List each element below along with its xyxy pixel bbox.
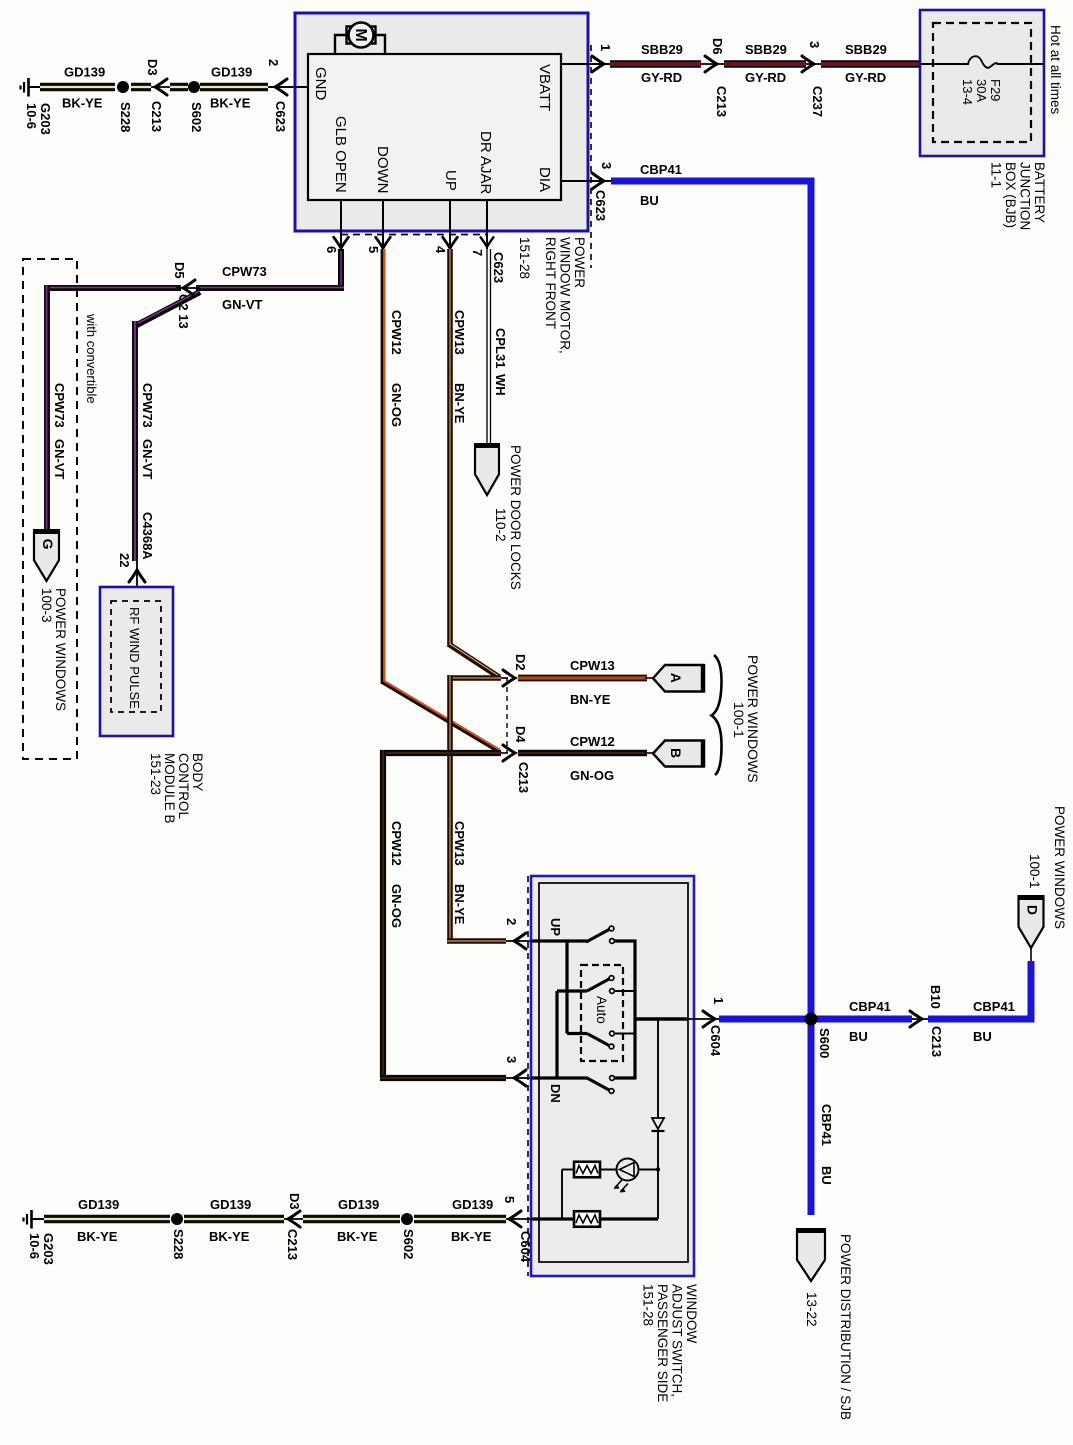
connector C623 arrow (GND) [275, 79, 287, 95]
svg-text:CBP41: CBP41 [849, 999, 891, 1014]
wire joint at C213 (top) [151, 86, 172, 88]
label B10 [928, 985, 943, 1009]
label BN-YE (to A) [570, 692, 611, 707]
wire GD139 segment 3 (top) [170, 83, 188, 91]
wire joint pin 2 [506, 940, 531, 942]
wire CPW12 diagonal to D4 [383, 681, 500, 751]
auto upper blade [587, 979, 610, 992]
svg-text:WINDOW MOTOR,: WINDOW MOTOR, [558, 237, 573, 354]
svg-text:G: G [40, 539, 56, 550]
label GD139 #2 (top) [211, 65, 252, 80]
wire CPW13 corner to pin 2 [447, 938, 506, 944]
label pin 5 (bottom) [502, 1196, 517, 1203]
pin label GND [312, 67, 329, 101]
label GD139 #3 (bottom) [338, 1197, 379, 1212]
label C623 (top) [273, 101, 288, 132]
svg-text:D5: D5 [172, 262, 187, 279]
wire joint at B10 [912, 1018, 930, 1020]
wire CPW13 down to switch [447, 675, 453, 941]
pin 2 arrow (switch) [514, 933, 526, 949]
wire lamp to diode node [639, 1169, 659, 1171]
svg-text:D: D [1025, 905, 1041, 915]
svg-text:SBB29: SBB29 [845, 42, 887, 57]
wire GD139 segment 2 (bottom) [184, 1215, 284, 1223]
body control module box [100, 587, 173, 736]
connector power distribution pentagon [796, 1231, 826, 1282]
battery junction box [920, 10, 1044, 156]
label C213 (D4) [516, 762, 531, 793]
wire lamp branch down [561, 1170, 563, 1220]
svg-text:C213: C213 [285, 1229, 300, 1260]
auto dashed box [581, 965, 623, 1061]
connector C4368A arrow [129, 570, 145, 582]
label pin 3 (switch) [504, 1056, 519, 1063]
svg-text:6: 6 [324, 246, 339, 253]
wire UP branch to lower auto blade [567, 1032, 587, 1035]
svg-text:BK-YE: BK-YE [209, 1229, 250, 1244]
diode branch wire [657, 1019, 659, 1118]
brace power windows 100-1 [712, 655, 722, 775]
svg-text:BK-YE: BK-YE [337, 1229, 378, 1244]
svg-text:BODY: BODY [190, 753, 205, 791]
wire joint pin 1 [688, 1018, 719, 1020]
wire GD139 segment 4 (top) [200, 83, 268, 91]
svg-text:BN-YE: BN-YE [570, 692, 611, 707]
wire UP branch down [565, 941, 568, 1034]
svg-text:A: A [668, 673, 684, 683]
label BU (top) [640, 193, 659, 208]
fuse F29 element [968, 56, 998, 68]
wire joint into motor box [268, 86, 308, 88]
label BU (right) [973, 1029, 992, 1044]
label G203 10-6 (top) [24, 103, 53, 135]
svg-text:GD139: GD139 [64, 65, 105, 80]
wire GD139 segment 1 (top) [40, 83, 115, 91]
svg-text:GD139: GD139 [210, 1197, 251, 1212]
wire GD139 segment 4 (bottom) [414, 1215, 506, 1223]
pin 7 arrow [481, 237, 494, 247]
label C213 (top) [149, 101, 164, 132]
svg-text:DR AJAR: DR AJAR [477, 131, 494, 195]
svg-text:Hot at all times: Hot at all times [1048, 25, 1063, 115]
svg-text:POWER: POWER [572, 237, 587, 288]
diode [652, 1118, 665, 1131]
svg-text:C213: C213 [714, 86, 729, 117]
pin 3 arrow (switch) [514, 1070, 526, 1086]
svg-text:151-28: 151-28 [517, 237, 532, 279]
svg-text:110-2: 110-2 [493, 508, 508, 542]
connector C237 arrow [802, 56, 814, 72]
label WH [493, 374, 508, 396]
svg-text:with convertible: with convertible [84, 313, 99, 404]
svg-text:S600: S600 [817, 1028, 832, 1058]
svg-text:C237: C237 [810, 86, 825, 117]
wire joint pentagon A [645, 677, 654, 679]
wire CPW73 to convertible [44, 285, 181, 292]
window adjust switch inner box [539, 883, 688, 1262]
svg-text:C623: C623 [593, 190, 608, 221]
BJB dashed inner box [933, 23, 1031, 142]
wire CBP41 to pentagon D [928, 961, 1031, 1019]
auto lower blade [587, 1034, 610, 1047]
pin 3 arrow (DIA) [592, 173, 604, 189]
svg-text:30A: 30A [974, 79, 989, 102]
splice S600 [805, 1013, 818, 1026]
svg-text:RIGHT FRONT: RIGHT FRONT [543, 237, 558, 329]
wire GND into inner box [295, 86, 309, 88]
label CPW12 (upper) [389, 310, 404, 355]
label pin 1 (VBATT) [598, 44, 613, 51]
label CPW13 (upper) [452, 310, 467, 355]
wire CPW13 diagonal to D2 [450, 644, 500, 677]
label UP [548, 918, 563, 936]
connector power door locks pentagon [474, 446, 500, 496]
svg-text:CONTROL: CONTROL [176, 753, 191, 819]
svg-text:CPL31: CPL31 [493, 328, 508, 368]
wire VBATT stub [561, 63, 610, 65]
svg-text:F29: F29 [988, 79, 1003, 101]
svg-text:BK-YE: BK-YE [451, 1229, 492, 1244]
wire DIA stub [561, 180, 611, 182]
svg-text:BATTERY: BATTERY [1032, 162, 1047, 223]
splice S602 (top) [188, 81, 200, 93]
svg-text:S602: S602 [189, 102, 204, 132]
wire auto lower to bus [615, 1033, 636, 1035]
svg-text:POWER WINDOWS: POWER WINDOWS [53, 588, 68, 711]
label C213 (D6) [714, 86, 729, 117]
wire joint at C604 (bottom) [506, 1218, 531, 1220]
wire stub pin 4 [449, 200, 451, 249]
svg-text:100-3: 100-3 [39, 588, 54, 623]
svg-text:CPW12: CPW12 [389, 821, 404, 866]
label BK-YE #1 (top) [62, 96, 103, 111]
svg-text:BK-YE: BK-YE [77, 1229, 118, 1244]
label S602 (top) [189, 102, 204, 132]
wire bus to pin 1 [635, 1017, 688, 1020]
svg-text:S602: S602 [401, 1229, 416, 1259]
svg-text:GN-VT: GN-VT [222, 297, 263, 312]
wire pin 5 into box [531, 1217, 574, 1220]
wire from fuse [997, 63, 1044, 65]
svg-text:SBB29: SBB29 [745, 42, 787, 57]
svg-text:GY-RD: GY-RD [641, 70, 682, 85]
svg-text:151-23: 151-23 [148, 753, 163, 795]
pin label GLB OPEN [332, 116, 349, 193]
svg-text:G203: G203 [41, 1233, 56, 1265]
svg-text:BK-YE: BK-YE [210, 96, 251, 111]
resistor upper [574, 1162, 600, 1178]
svg-text:BOX (BJB): BOX (BJB) [1003, 162, 1018, 228]
connector C213 B10 arrow [910, 1011, 922, 1027]
wire CPW73 horizontal [196, 285, 344, 292]
splice S228 (top) [117, 81, 129, 93]
label C623 (DIA) [593, 190, 608, 221]
label CPW73 (horizontal) [222, 264, 267, 279]
auto upper contact circles [609, 976, 614, 994]
wire DN branch up [555, 991, 558, 1078]
svg-text:B10: B10 [928, 985, 943, 1009]
label POWER DISTRIBUTION / SJB [838, 1234, 853, 1420]
svg-text:22: 22 [117, 553, 132, 567]
label G203 10-6 (bottom) [27, 1233, 56, 1265]
wire joint at C213 (bottom) [284, 1218, 305, 1220]
svg-text:3: 3 [504, 1056, 519, 1063]
connector C604 pin 5 arrow [509, 1211, 521, 1227]
wire CPW12 down to switch [380, 750, 386, 1078]
wire CPW13 to pentagon A [518, 675, 647, 682]
label D6 [710, 38, 725, 55]
svg-text:13-4: 13-4 [960, 79, 975, 105]
svg-text:D6: D6 [710, 38, 725, 55]
svg-text:1: 1 [598, 44, 613, 51]
label BODY CONTROL MODULE B 151-23 [148, 753, 205, 824]
dashed box with convertible [23, 259, 77, 759]
connector C213 D5 arrow [176, 280, 200, 296]
svg-text:UP: UP [548, 918, 563, 936]
connector D2 arrow [501, 670, 515, 686]
svg-text:2: 2 [266, 59, 281, 66]
svg-text:G203: G203 [38, 103, 53, 135]
label 100-1 (A/B) [731, 702, 747, 738]
svg-text:CBP41: CBP41 [819, 1104, 834, 1146]
svg-text:RF WIND PULSE: RF WIND PULSE [127, 607, 142, 709]
node D2 [450, 675, 501, 681]
pin label DOWN [374, 146, 391, 194]
DN switch contact circles [609, 1076, 614, 1094]
label POWER WINDOWS (A/B) [745, 655, 761, 783]
svg-text:GN-VT: GN-VT [52, 439, 67, 480]
label C213 (D5) [176, 294, 191, 329]
wire CPW12 corner to pin 3 [380, 1075, 506, 1081]
svg-text:5: 5 [502, 1196, 517, 1203]
label GD139 #2 (bottom) [210, 1197, 251, 1212]
wire stub pin 6 [340, 200, 342, 249]
wire into fuse [921, 63, 969, 65]
svg-text:CBP41: CBP41 [973, 999, 1015, 1014]
illumination lamp [614, 1159, 639, 1193]
wire CBP41 pin1 to S600 [719, 1016, 912, 1023]
label S600 [817, 1028, 832, 1058]
label SBB29 #2 [745, 42, 787, 57]
splice S602 (bottom) [401, 1213, 413, 1225]
wire SBB29 segment 1 [610, 60, 701, 67]
label pin 2 (switch) [504, 918, 519, 925]
label WINDOW ADJUST SWITCH PASSENGER SIDE 151-28 [641, 1284, 700, 1402]
wire joint pentagon B [645, 752, 654, 754]
svg-text:POWER DISTRIBUTION / SJB: POWER DISTRIBUTION / SJB [838, 1234, 853, 1420]
connector C213 dashed boundary (D2-D4) [506, 678, 508, 753]
connector C213 arrow (bottom) [288, 1211, 300, 1227]
label C213 (B10) [929, 1026, 944, 1057]
wire GD139 segment 3 (bottom) [303, 1215, 400, 1223]
connector G pentagon [33, 532, 60, 582]
label C604 (pin 1) [708, 1025, 723, 1057]
label BN-YE (upper) [452, 383, 467, 424]
svg-text:D3: D3 [145, 59, 160, 76]
svg-text:PASSENGER SIDE: PASSENGER SIDE [655, 1284, 670, 1402]
label GY-RD #2 [745, 70, 786, 85]
BCM dashed inner box [111, 601, 161, 712]
svg-text:GN-OG: GN-OG [389, 884, 404, 928]
label CPW12 (to B) [570, 734, 615, 749]
wire SBB29 segment 2 [724, 60, 806, 67]
svg-text:CPW73: CPW73 [222, 264, 267, 279]
label D2 [513, 654, 528, 671]
label Hot at all times [1048, 25, 1063, 115]
svg-text:100-1: 100-1 [731, 702, 747, 738]
wire resistor lower to node [600, 1217, 658, 1220]
svg-text:5: 5 [366, 246, 381, 253]
label CPW13 (to A) [570, 658, 615, 673]
svg-text:CBP41: CBP41 [640, 162, 682, 177]
splice S228 (bottom) [171, 1213, 183, 1225]
label C4368A [140, 512, 155, 560]
wire UP contact to bus [615, 939, 636, 942]
wire pin 2 to UP contact [531, 939, 587, 942]
connector C623 dashed boundary (right) [590, 45, 592, 268]
wire GD139 segment 1 (bottom) [44, 1215, 170, 1223]
wire diode to lamp node [657, 1131, 659, 1219]
connector C213 D6 arrow [705, 56, 717, 72]
label Auto [594, 996, 609, 1024]
label 13-22 [804, 1292, 819, 1327]
wire joint pentagon D [1030, 948, 1032, 961]
wire SBB29 segment 3 [821, 60, 921, 67]
label with convertible [84, 313, 99, 404]
svg-text:GN-OG: GN-OG [389, 383, 404, 427]
svg-text:JUNCTION: JUNCTION [1018, 162, 1033, 230]
svg-text:GY-RD: GY-RD [745, 70, 786, 85]
svg-text:Auto: Auto [594, 996, 609, 1024]
label DN [548, 1084, 563, 1103]
ground G203 (bottom) [24, 1210, 46, 1229]
connector C604 dashed boundary [527, 876, 529, 1276]
label GY-RD #3 [845, 70, 886, 85]
wire pin 3 to DN contact [531, 1076, 587, 1079]
svg-text:CPW13: CPW13 [570, 658, 615, 673]
connector C623 dashed boundary (bottom) [341, 234, 487, 236]
label BN-YE (lower) [452, 884, 467, 925]
label pin 22 [117, 553, 132, 567]
label SBB29 #1 [641, 42, 683, 57]
svg-text:100-1: 100-1 [1027, 854, 1042, 889]
label CPW12 (lower) [389, 821, 404, 866]
label D3 (bottom) [287, 1193, 302, 1210]
svg-text:10-6: 10-6 [24, 103, 39, 129]
label SBB29 #3 [845, 42, 887, 57]
connector pentagon B [653, 740, 704, 768]
label BK-YE #4 (bottom) [451, 1229, 492, 1244]
label POWER WINDOW MOTOR RIGHT FRONT 151-28 [517, 237, 587, 354]
pin label DR AJAR [477, 131, 494, 195]
label pin 3 (DIA) [599, 162, 614, 169]
svg-text:BU: BU [973, 1029, 992, 1044]
svg-text:S228: S228 [171, 1229, 186, 1259]
label BK-YE #1 (bottom) [77, 1229, 118, 1244]
label pin 6 [324, 246, 339, 253]
label BK-YE #3 (bottom) [337, 1229, 378, 1244]
svg-text:B: B [668, 748, 684, 758]
pin 1 arrow (switch) [703, 1011, 715, 1027]
connector pentagon A [653, 664, 704, 693]
wire stub into BCM [136, 561, 138, 588]
svg-text:7: 7 [470, 249, 485, 256]
svg-text:CPW13: CPW13 [452, 310, 467, 355]
label CPW73 GN-VT (left) [52, 383, 67, 480]
svg-text:GD139: GD139 [78, 1197, 119, 1212]
wire CPW13 vertical (pin 4) [447, 249, 453, 647]
svg-text:DIA: DIA [536, 167, 553, 192]
svg-text:C4368A: C4368A [140, 512, 155, 560]
svg-text:BN-YE: BN-YE [452, 383, 467, 424]
label GD139 #1 (bottom) [78, 1197, 119, 1212]
wire CPW12 left of D4 [380, 750, 501, 756]
svg-text:VBATT: VBATT [536, 64, 553, 111]
svg-text:BU: BU [819, 1166, 834, 1185]
svg-text:CPW12: CPW12 [570, 734, 615, 749]
wire DN branch to upper auto blade [557, 989, 587, 992]
label GN-OG (lower) [389, 884, 404, 928]
label BATTERY JUNCTION BOX (BJB) 11-1 [989, 162, 1048, 230]
connector D4 arrow [501, 745, 515, 761]
pin label VBATT [536, 64, 553, 111]
label C237 [810, 86, 825, 117]
resistor lower [574, 1211, 600, 1227]
label pin 1 (switch) [711, 997, 726, 1004]
label GY-RD #1 [641, 70, 682, 85]
svg-text:CPW13: CPW13 [452, 821, 467, 866]
label F29 30A 13-4 [960, 79, 1003, 105]
svg-text:D2: D2 [513, 654, 528, 671]
svg-text:C604: C604 [518, 1231, 533, 1263]
svg-text:GD139: GD139 [338, 1197, 379, 1212]
window adjust switch outer box [531, 876, 694, 1276]
label BU (S600 left) [849, 1029, 868, 1044]
svg-text:GND: GND [312, 67, 329, 101]
DN switch blade [587, 1078, 610, 1091]
UP switch blade [587, 929, 610, 942]
label GN-OG (upper) [389, 383, 404, 427]
svg-text:D4: D4 [513, 726, 528, 743]
svg-text:10-6: 10-6 [27, 1233, 42, 1259]
label GD139 #4 (bottom) [452, 1197, 493, 1212]
wire CPL31 (pin 7) [487, 249, 491, 443]
label BK-YE #2 (bottom) [209, 1229, 250, 1244]
label POWER WINDOWS (D) [1052, 806, 1067, 929]
switch output bus [633, 940, 636, 1080]
label CBP41 (down) [819, 1104, 834, 1146]
label S228 (bottom) [171, 1229, 186, 1259]
wire auto upper to bus [615, 990, 636, 992]
wire CPW12 to pentagon B [518, 750, 647, 757]
pin label DIA [536, 167, 553, 192]
auto lower contact circles [609, 1031, 614, 1049]
svg-text:11-1: 11-1 [989, 162, 1004, 188]
svg-text:1: 1 [711, 997, 726, 1004]
svg-text:BK-YE: BK-YE [62, 96, 103, 111]
svg-text:UP: UP [442, 170, 459, 191]
svg-text:C623: C623 [491, 252, 506, 283]
label C623 (pin row) [491, 252, 506, 283]
wire CPW73 down to C4368A [132, 321, 138, 561]
svg-text:WINDOW: WINDOW [684, 1284, 699, 1343]
svg-text:S228: S228 [118, 102, 133, 132]
svg-text:GLB OPEN: GLB OPEN [332, 116, 349, 193]
wire lamp left [562, 1169, 574, 1171]
ground G203 (top) [21, 78, 42, 97]
svg-text:2: 2 [504, 918, 519, 925]
svg-text:C213: C213 [516, 762, 531, 793]
